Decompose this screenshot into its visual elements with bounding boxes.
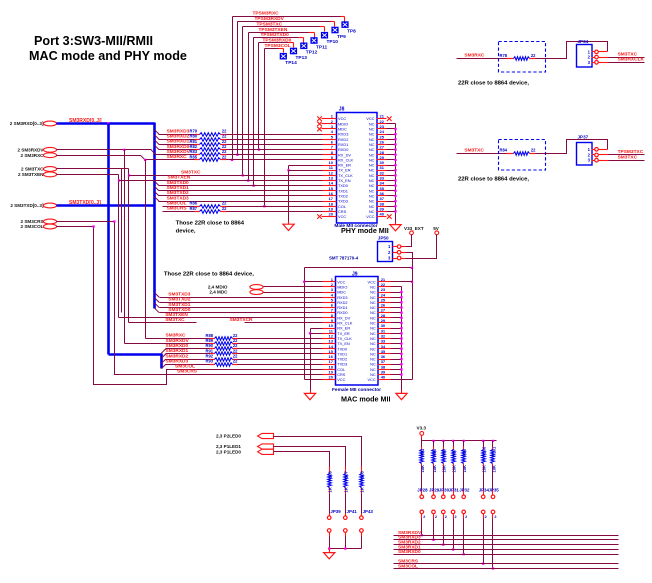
resistor R88 22 (210, 338, 215, 340)
resistor R95 10K (433, 441, 435, 447)
svg-text:JP35: JP35 (489, 487, 500, 492)
wire MDIO to J9 pin2 (264, 286, 323, 288)
svg-text:2 SM3TXD[0..3]: 2 SM3TXD[0..3] (10, 203, 44, 208)
svg-text:JP39: JP39 (330, 509, 341, 514)
svg-text:SM3RXC: SM3RXC (464, 53, 485, 59)
wire SM3RXDV south (124, 150, 126, 344)
svg-text:R87: R87 (190, 206, 198, 211)
wire SM3TXEN port run (57, 174, 119, 176)
junction SM3RXC south (144, 159, 146, 161)
svg-text:JP28: JP28 (417, 487, 428, 492)
junction LED rail 2 (344, 547, 346, 549)
wire J9 NC rail to ground (401, 391, 403, 394)
junction JP34 to SM3CRS (482, 563, 484, 565)
wire LED rail to ground (329, 549, 331, 553)
wire vertical crossing (121, 169, 123, 313)
wire J9 pin1 stub run (305, 281, 323, 283)
svg-text:TP14: TP14 (285, 60, 297, 66)
svg-text:device,: device, (176, 228, 196, 234)
svg-text:SM3TXD3: SM3TXD3 (168, 291, 190, 297)
wire J9 pin21 run (391, 281, 413, 283)
junction JP30 to SM3RXD2 (442, 544, 444, 546)
svg-text:20: 20 (329, 375, 334, 380)
resistor R84 22 (507, 153, 514, 155)
wire J9 VCC top rail (305, 267, 413, 269)
svg-text:SM3TXD1: SM3TXD1 (168, 302, 190, 308)
wire row SM3RXC to J8 pin 9 (227, 159, 323, 161)
wire SM3TXC left segment at J9 (129, 322, 197, 324)
svg-text:SM3CRS: SM3CRS (167, 206, 188, 212)
svg-text:TPSM3RXDV: TPSM3RXDV (255, 16, 285, 22)
wire row SM3CRS to J8 pin 19 (163, 211, 195, 213)
svg-text:SM3TXD0: SM3TXD0 (168, 307, 190, 313)
svg-text:JP43: JP43 (363, 509, 374, 514)
terminal V33_EXT (410, 231, 414, 235)
svg-text:10K: 10K (462, 465, 467, 473)
resistor R80 22 (195, 139, 200, 141)
wire net SM3RXD1 bottom (394, 549, 619, 551)
svg-text:SM3RXC: SM3RXC (166, 333, 187, 339)
wire P2LED0 run (274, 437, 362, 467)
resistor R94 10K (421, 441, 423, 447)
wire row SM3RXD2 to J8 pin 5 (155, 135, 159, 139)
wire row SM3RXD0 to J8 pin 7 (155, 145, 159, 149)
svg-text:SM3TXC: SM3TXC (464, 148, 484, 154)
svg-text:Female MII connector: Female MII connector (332, 387, 381, 393)
svg-text:TPSM3RXC: TPSM3RXC (253, 11, 280, 17)
svg-text:2 SM3TXC: 2 SM3TXC (21, 167, 44, 172)
bus junction (107, 122, 109, 124)
svg-text:Those 22R close to 8864 device: Those 22R close to 8864 device, (164, 272, 254, 278)
jumper JP28 (421, 467, 423, 490)
wire JP50 pin3 to 5V (401, 258, 406, 260)
svg-text:2: 2 (494, 515, 496, 519)
svg-text:SM3RXD0: SM3RXD0 (166, 343, 189, 349)
svg-text:20: 20 (329, 212, 334, 217)
svg-text:22: 22 (233, 359, 238, 364)
test point TP12 (300, 43, 307, 50)
svg-text:TPSM3TXD0: TPSM3TXD0 (261, 32, 290, 38)
wire J8 RX_ER row (289, 165, 323, 167)
bus spine vertical (bus B) (153, 123, 156, 309)
wire J9 VCC left rail (304, 268, 306, 380)
jumper JP31 (453, 467, 455, 490)
junction TPSM3COL (263, 205, 265, 207)
junctions pullup rail (432, 440, 434, 442)
wire SM3TXC to R84 (457, 153, 507, 155)
svg-text:10K: 10K (482, 465, 487, 473)
svg-text:R94: R94 (420, 448, 425, 456)
resistor R89 22 (210, 343, 215, 345)
svg-text:R84: R84 (500, 148, 508, 153)
svg-text:VCC: VCC (366, 214, 374, 219)
junction J9 TX_ER (309, 332, 311, 334)
resistor R91 22 (210, 353, 215, 355)
wire R84 to JP37 pin1 (536, 140, 608, 154)
wire row SM3TXEN to J8 pin 13 (119, 180, 323, 182)
resistor R82 22 (195, 149, 200, 151)
jumper JP32 (463, 467, 465, 490)
svg-text:V3.3: V3.3 (417, 426, 427, 431)
svg-text:R107: R107 (344, 470, 349, 481)
svg-text:22: 22 (222, 206, 227, 211)
resistor R87 22 (195, 211, 200, 213)
svg-text:VCC: VCC (337, 377, 345, 382)
jumper JP43 (361, 494, 363, 514)
junction LED rail 1 (328, 547, 330, 549)
wire net SM3COL bottom (394, 568, 619, 570)
resistor R96 10K (443, 441, 445, 447)
svg-text:JP32: JP32 (459, 487, 470, 492)
svg-text:R97: R97 (452, 448, 457, 456)
svg-text:SM3TXC: SM3TXC (181, 170, 201, 176)
wire V3.3 stub (421, 436, 423, 439)
jumper JP34 (483, 467, 485, 490)
wire JP34 pin3 SM3RXCLK (599, 62, 609, 64)
svg-text:2 SM3RXDV: 2 SM3RXDV (17, 148, 44, 153)
wire SM3RXC port run (57, 155, 141, 157)
junction SM3COL (92, 225, 94, 227)
wire row SM3TXC to J8 pin 12 (129, 175, 323, 177)
wire row SM3TXD3 to J8 pin 17 (155, 197, 159, 201)
svg-text:2,3 P1LED0: 2,3 P1LED0 (216, 450, 241, 455)
resistor R81 22 (195, 144, 200, 146)
svg-text:2: 2 (465, 515, 467, 519)
connector J8 male MII (337, 113, 378, 224)
wire R78 to JP34 pin1 (536, 42, 608, 59)
svg-text:2 SM3RXC: 2 SM3RXC (21, 153, 45, 158)
junction J8 TX_ER (287, 169, 289, 171)
wire JP50 pin1 to V33_EXT (401, 246, 406, 248)
wire J8 NC rail (387, 123, 396, 125)
ground G1 (283, 224, 294, 230)
svg-text:5V: 5V (433, 226, 440, 231)
wire MDC to J9 pin3 (264, 292, 323, 294)
svg-text:R106: R106 (327, 470, 332, 481)
svg-text:22: 22 (531, 148, 536, 153)
junction SM3CRS (113, 220, 115, 222)
svg-text:1K: 1K (344, 487, 349, 492)
svg-text:SM3RXD3: SM3RXD3 (166, 358, 189, 364)
wire J9 TX_ER row (311, 333, 323, 335)
svg-text:SM3RXD2: SM3RXD2 (166, 353, 189, 359)
resistor R92 22 (210, 359, 215, 361)
wire JP37 pin2 TPSM3TXC (599, 154, 609, 156)
svg-text:2,4 MDC: 2,4 MDC (209, 290, 228, 295)
resistor R107 1K (345, 467, 347, 474)
svg-text:SMT 787170-4: SMT 787170-4 (329, 256, 359, 261)
wire row SM3TXD2 to J9 pin 5 (155, 298, 160, 303)
wire row SM3RXD3 to J9 pin 17 (161, 364, 165, 368)
wire P1LED0 run (274, 452, 330, 467)
junction VCC rail/JP50 (411, 267, 413, 269)
resistor R97 10K (453, 441, 455, 447)
junction SM3TXC at J8 TX_CLK (128, 174, 130, 176)
resistor R106 1K (329, 467, 331, 474)
wire SM3RXC to R78 (457, 58, 507, 60)
svg-text:Port 3:SW3-MII/RMII: Port 3:SW3-MII/RMII (34, 34, 153, 48)
junction JP29 to SM3RXD3 (432, 539, 434, 541)
svg-text:SM3TXD2: SM3TXD2 (168, 297, 190, 303)
svg-text:SM3TXD3: SM3TXD3 (167, 195, 189, 201)
svg-text:SM3TXC: SM3TXC (618, 155, 638, 161)
wire net TPSM3RXC (233, 16, 341, 18)
jumper JP29 (433, 467, 435, 490)
wire row SM3RXD0 to J9 pin 14 (161, 349, 165, 353)
wire SM3TXCR segment to J9 pin 9 (245, 322, 323, 324)
wire J9 ER to ground (310, 334, 312, 391)
wire SM3RXC south (145, 160, 147, 339)
svg-text:J8: J8 (339, 107, 345, 113)
X no-connect J8 pin 2 (317, 122, 322, 127)
wire row SM3TXD0 to J8 pin 14 (155, 181, 159, 185)
resistor R78 22 (507, 58, 514, 60)
test point TP14 (280, 53, 287, 60)
jumper JP34 (header) (577, 45, 593, 68)
junction J9 pin21 (411, 281, 413, 283)
resistor R90 22 (210, 348, 215, 350)
svg-text:JP34: JP34 (578, 39, 589, 44)
svg-text:2 SM3TXEN: 2 SM3TXEN (18, 172, 44, 177)
svg-text:TP11: TP11 (316, 44, 328, 50)
wire net TPSM3TXEN (249, 32, 309, 34)
junction SM3TXEN at J8 TX_EN (118, 179, 120, 181)
svg-text:TP8: TP8 (347, 28, 356, 34)
wire SM3CRS route (57, 221, 115, 223)
svg-text:40: 40 (381, 375, 386, 380)
test point TP8 (341, 21, 348, 28)
junction TPSM3TXD0 (252, 185, 254, 187)
svg-text:MAC mode MII: MAC mode MII (341, 395, 391, 404)
junction JP35 to SM3COL (492, 567, 494, 569)
ground G4 (396, 393, 407, 399)
svg-text:TPSM3RXD0: TPSM3RXD0 (263, 38, 292, 44)
resistor R100 10K (483, 441, 485, 447)
junction JP32 to SM3RXD0 (463, 553, 465, 555)
X no-connect J8 pin 40 (387, 214, 392, 219)
svg-text:2: 2 (435, 515, 437, 519)
svg-text:TP9: TP9 (337, 34, 346, 40)
svg-text:R108: R108 (360, 470, 365, 481)
jumper JP41 (345, 494, 347, 514)
svg-text:2 SM3RXD[0..3]: 2 SM3RXD[0..3] (10, 121, 44, 126)
junction SM3RXDV south (123, 149, 125, 151)
svg-text:J9: J9 (352, 271, 358, 277)
svg-text:2,3 P1LED1: 2,3 P1LED1 (216, 444, 241, 449)
wire P1LED1 run (274, 447, 346, 467)
resistor R83 22 (195, 154, 200, 156)
svg-text:V33_EXT: V33_EXT (404, 226, 424, 231)
X no-connect J8 pin 1 (317, 116, 322, 121)
svg-text:2: 2 (485, 515, 487, 519)
svg-text:Those 22R close to 8864: Those 22R close to 8864 (176, 220, 245, 226)
wire JP50 pin2 to VCC rail (401, 252, 406, 254)
junction TPSM3TXEN (247, 179, 249, 181)
resistor R93 22 (210, 364, 215, 366)
jumper JP30 (443, 467, 445, 490)
wire J8 ER net to ground (288, 171, 290, 222)
svg-text:SM3COL: SM3COL (167, 200, 187, 206)
svg-text:TPSM3TXEN: TPSM3TXEN (259, 27, 288, 33)
svg-text:JP31: JP31 (449, 487, 460, 492)
wire row SM3RXD1 to J8 pin 6 (155, 140, 159, 144)
svg-text:SM3RXD3: SM3RXD3 (167, 128, 190, 134)
junction TPSM3RXC (231, 159, 233, 161)
svg-text:JP37: JP37 (578, 134, 589, 139)
wire JP37 pin3 SM3TXC (599, 160, 609, 162)
wire row SM3TXD2 to J8 pin 16 (155, 192, 159, 196)
svg-text:SM3RXD1: SM3RXD1 (167, 139, 190, 145)
svg-text:R78: R78 (500, 53, 508, 58)
svg-text:TPSM3TXC: TPSM3TXC (257, 21, 283, 27)
junction TPSM3RXD0 (258, 148, 260, 150)
svg-text:R100: R100 (482, 446, 487, 457)
wire row SM3TXD0 to J9 pin 7 (155, 308, 160, 313)
dashed box R78 (499, 42, 546, 73)
wire net SM3RXD2 bottom (394, 544, 619, 546)
svg-text:SM3RXD0: SM3RXD0 (167, 144, 190, 150)
bus SM3TXD horizontal (57, 204, 155, 207)
svg-text:SM3RXDV: SM3RXDV (166, 338, 190, 344)
wire net SM3CRS bottom (394, 563, 619, 565)
junction J9 pin1 (303, 281, 305, 283)
svg-text:22R close to 8864 device,: 22R close to 8864 device, (458, 176, 529, 182)
wire row SM3RXDV to J9 pin 13 (238, 343, 323, 345)
bus SM3RXD horizontal (57, 122, 155, 125)
wire net TPSM3RXD0 (259, 42, 289, 44)
svg-text:TPSM3COL: TPSM3COL (265, 43, 291, 49)
wire SM3COL route (57, 226, 94, 228)
wire LED ground rail (330, 548, 362, 550)
svg-text:R101: R101 (491, 446, 496, 457)
svg-text:JP50: JP50 (378, 235, 389, 240)
svg-text:SM3RXD0: SM3RXD0 (398, 549, 421, 555)
wire net SM3RXD0 bottom (394, 554, 619, 556)
resistor R85 22 (195, 159, 200, 161)
resistor R108 1K (361, 467, 363, 474)
bus SM3RXD vertical (bus A) (107, 124, 110, 355)
wire J9 NC rail (391, 286, 402, 288)
wire net TPSM3RXDV (238, 21, 331, 23)
svg-text:TP10: TP10 (327, 39, 339, 45)
wire JP34 pin2 SM3TXC (599, 57, 609, 59)
wire net SM3RXDV bottom (394, 535, 619, 537)
X no-connect J8 pin 21 (387, 116, 392, 121)
svg-text:SM3RXCLK: SM3RXCLK (618, 57, 645, 63)
svg-text:SM3COL: SM3COL (175, 364, 195, 370)
svg-text:1K: 1K (360, 487, 365, 492)
wire net TPSM3COL (265, 48, 279, 50)
ground G2 (390, 225, 401, 231)
svg-text:10K: 10K (432, 465, 437, 473)
svg-text:TPSM3TXC: TPSM3TXC (618, 149, 644, 155)
svg-text:40: 40 (380, 212, 385, 217)
wire J8 TX_ER row (289, 170, 323, 172)
svg-text:SM3TXCR: SM3TXCR (230, 317, 253, 323)
svg-text:SM3TXD2: SM3TXD2 (167, 190, 189, 196)
svg-text:10K: 10K (420, 465, 425, 473)
ground G3 (304, 393, 315, 399)
svg-text:PHY mode MII: PHY mode MII (341, 226, 389, 235)
svg-text:R85: R85 (190, 154, 198, 159)
ground G5 (324, 553, 335, 559)
dashed box R84 (499, 140, 546, 171)
terminal V3.3 (420, 432, 424, 436)
terminal 5V (435, 231, 439, 235)
junction JP28 to SM3RXDV (421, 534, 423, 536)
wire row SM3COL to J8 pin 18 (163, 206, 195, 208)
junction JP31 to SM3RXD1 (452, 548, 454, 550)
svg-text:R93: R93 (206, 359, 214, 364)
wire SM3TXEN into J9 pin 8 (119, 317, 323, 319)
svg-text:1K: 1K (327, 487, 332, 492)
svg-text:2,3 P2LED0: 2,3 P2LED0 (216, 434, 241, 439)
svg-text:VCC: VCC (367, 377, 375, 382)
svg-text:SM3TXC: SM3TXC (165, 317, 185, 323)
wire net TPSM3TXC (243, 26, 320, 28)
connector J9 female MII (336, 277, 379, 386)
test point TP13 (290, 48, 297, 55)
X no-connect J8 pin 20 (317, 214, 322, 219)
jumper JP39 (329, 494, 331, 514)
wire net SM3RXD3 bottom (394, 539, 619, 541)
X no-connect J8 pin 3 (317, 127, 322, 132)
test point TP9 (331, 27, 338, 34)
wire SM3RXDV port run (57, 149, 152, 151)
svg-text:SM3COL: SM3COL (398, 563, 418, 569)
wire row SM3TXD3 to J9 pin 4 (155, 293, 160, 298)
svg-text:SM3RXD2: SM3RXD2 (167, 134, 190, 140)
resistor R101 10K (492, 441, 494, 447)
junction TPSM3TXC (242, 174, 244, 176)
svg-text:2: 2 (445, 515, 447, 519)
wire row SM3RXD3 to J8 pin 4 (155, 130, 159, 134)
resistor R79 22 (195, 134, 200, 136)
svg-text:2: 2 (455, 515, 457, 519)
bus A corner to taps (109, 353, 162, 356)
svg-text:TP13: TP13 (296, 55, 308, 61)
wire row SM3TXD1 to J8 pin 15 (155, 187, 159, 191)
resistor R86 22 (195, 206, 200, 208)
wire net TPSM3TXD0 (254, 37, 299, 39)
junctions J8 NC rail (394, 128, 396, 130)
svg-text:SM3CRS: SM3CRS (177, 369, 198, 375)
wire pullup rail (422, 440, 497, 442)
svg-text:22: 22 (531, 53, 536, 58)
test point TP11 (310, 37, 317, 44)
svg-text:22R close to 8864 device,: 22R close to 8864 device, (458, 81, 529, 87)
wire row SM3RXC to J9 pin 12 (238, 338, 323, 340)
svg-text:JP41: JP41 (347, 509, 358, 514)
svg-text:TP12: TP12 (306, 50, 318, 56)
test point TP10 (321, 32, 328, 39)
svg-text:SM3RXD1: SM3RXD1 (166, 348, 189, 354)
wire row SM3RXDV to J8 pin 8 (227, 154, 323, 156)
svg-text:SM3TXD0: SM3TXD0 (167, 180, 189, 186)
svg-text:VCC: VCC (338, 214, 346, 219)
junctions J9 NC rail (400, 291, 402, 293)
svg-text:22: 22 (222, 154, 227, 159)
svg-text:R98: R98 (462, 448, 467, 456)
wire row SM3RXD2 to J9 pin 16 (161, 359, 165, 363)
svg-text:R95: R95 (432, 448, 437, 456)
svg-text:SM3TXC: SM3TXC (618, 51, 638, 57)
wire J8 NC rail to ground (395, 223, 397, 225)
wire SM3TXC port run (57, 168, 129, 170)
wire row SM3TXD1 to J9 pin 6 (155, 303, 160, 308)
resistor R98 10K (463, 441, 465, 447)
svg-text:SM3TXEN: SM3TXEN (168, 175, 191, 181)
